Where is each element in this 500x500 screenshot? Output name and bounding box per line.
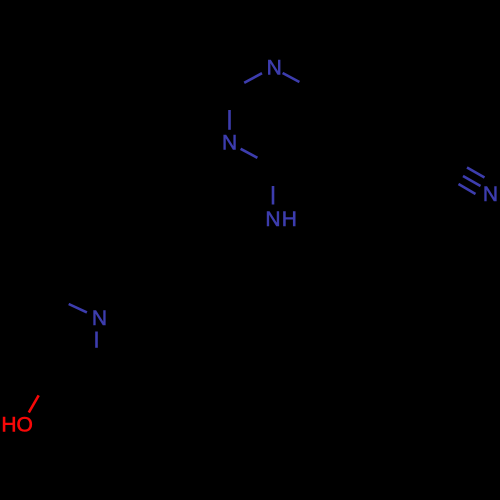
wire nitrile triple bond bottom line — [459, 184, 476, 194]
svg-text:N: N — [92, 307, 107, 330]
svg-text:H: H — [1, 413, 16, 436]
svg-text:O: O — [17, 413, 33, 436]
wire N1-C2 half-bond — [244, 73, 262, 83]
wire N1-C8a half-bond — [283, 73, 300, 82]
wire N3-C4 half-bond — [241, 149, 258, 158]
svg-text:N: N — [265, 208, 280, 231]
wire C4-NH half-bond — [272, 186, 275, 205]
svg-text:H: H — [282, 208, 297, 231]
wire O-C half-bond — [29, 395, 39, 412]
wire C2-N3 half-bond — [228, 110, 231, 130]
wire nitrile triple bond middle line — [463, 176, 481, 186]
wire nitrile triple bond top line — [467, 168, 485, 178]
svg-text:N: N — [267, 56, 282, 79]
wire pyrrolidine N-CH3 half-bond — [69, 304, 87, 312]
svg-text:N: N — [483, 183, 498, 206]
wire pyrrolidine N-C half-bond — [95, 332, 98, 348]
svg-text:N: N — [222, 131, 237, 154]
